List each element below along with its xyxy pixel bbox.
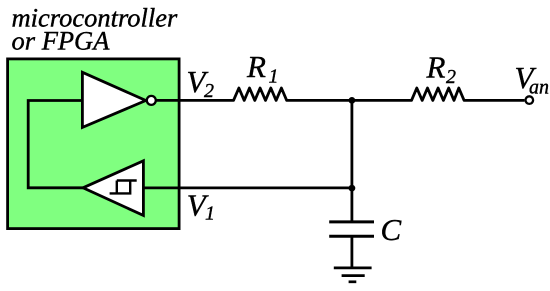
op-amp U1: inverter (triangle) [82, 72, 145, 127]
svg-text:1: 1 [205, 203, 215, 225]
op-amp U2: Schmitt-trigger inverter (left-pointing triangle) [83, 161, 143, 216]
hysteresis symbol [110, 181, 137, 194]
wire: V2 net from inverter bubble through R1,R2 to Van [157, 88, 525, 100]
svg-text:2: 2 [204, 80, 214, 102]
microcontroller block (green box) [8, 59, 180, 229]
svg-text:C: C [381, 212, 402, 247]
node: V1 junction dot [349, 185, 356, 192]
inverter output bubble [147, 96, 156, 105]
svg-text:R: R [426, 50, 446, 85]
capacitor C [329, 220, 374, 223]
svg-text:or FPGA: or FPGA [12, 25, 111, 55]
wire: vertical from V2 node down to capacitor [350, 100, 353, 221]
terminal Van (open circle) [526, 96, 534, 104]
wire: V1 net from Schmitt input to junction [143, 186, 352, 189]
svg-text:1: 1 [269, 66, 279, 88]
node: V2 junction dot [349, 97, 356, 104]
svg-text:an: an [529, 77, 549, 99]
wire: feedback from Schmitt output up to inverter input [28, 101, 83, 188]
svg-text:R: R [246, 49, 266, 84]
svg-text:2: 2 [446, 66, 456, 88]
wire: capacitor bottom to ground [350, 236, 353, 268]
ground [334, 267, 372, 270]
